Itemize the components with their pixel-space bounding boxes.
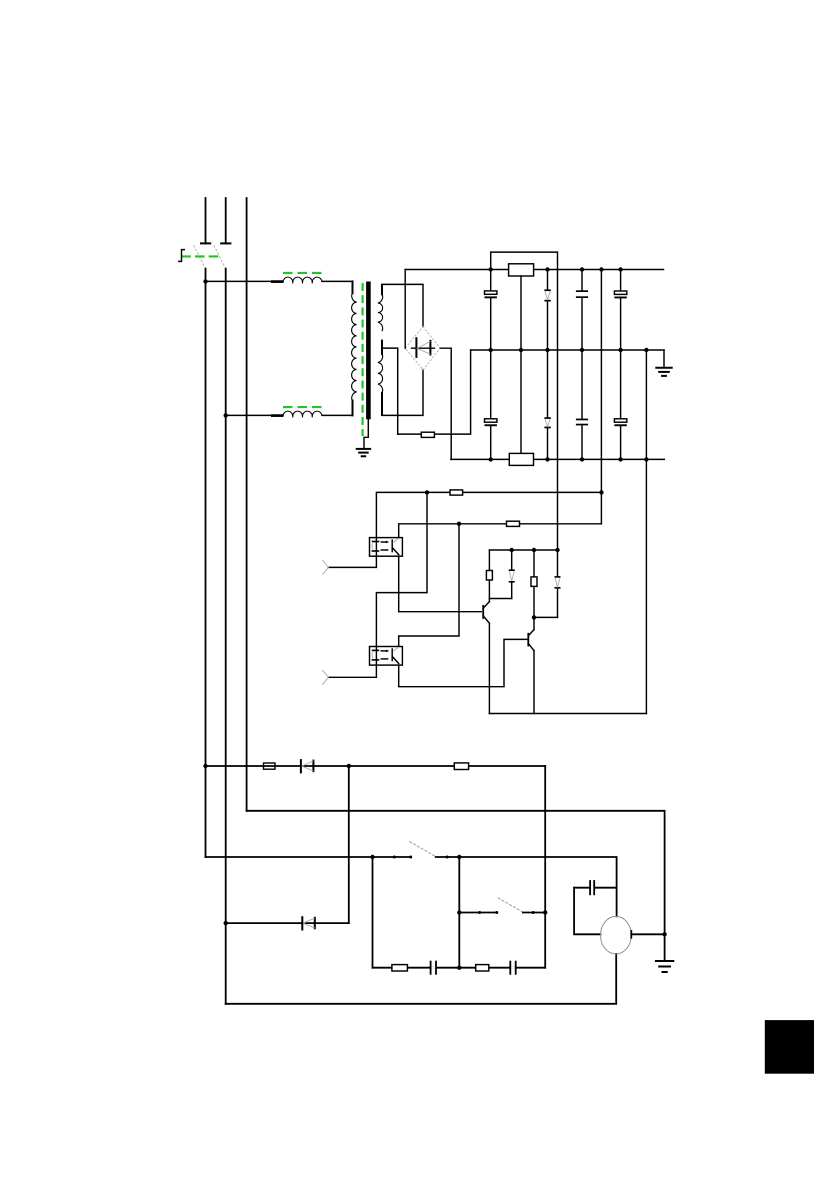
wire Q1 collector node (489, 598, 511, 600)
wire x427 vertical (376, 492, 427, 646)
motor terminal tick (630, 931, 632, 938)
pin P2 (line) (225, 198, 227, 243)
wire line C y857 left (206, 856, 411, 858)
black square marker (765, 1020, 814, 1074)
transformer T1 secondary winding 2 (378, 354, 383, 394)
switch S1 linkage (green dashed) (181, 255, 220, 257)
transformer T1 primary leads (352, 281, 354, 293)
wire Q2 collector node (534, 616, 558, 618)
transformer T1 green dashed shield (362, 283, 364, 436)
resistor R2 (421, 432, 434, 437)
wire motor right lead (631, 933, 664, 935)
wire opto2 emitter to Q2 base (399, 639, 527, 686)
optocoupler U2 (370, 647, 403, 666)
capacitor C3 (electrolytic) (614, 270, 626, 351)
capacitor C1 (electrolytic) (485, 270, 497, 351)
wire snubber row y968 (373, 967, 546, 969)
node y524 dot (457, 522, 461, 526)
capacitor C2 (576, 270, 588, 351)
wire R1 bypass loop (491, 252, 558, 269)
arrow input 2 (322, 670, 328, 685)
node SW3 line dot (457, 910, 461, 914)
switch SW2 arm (gray) (409, 841, 435, 856)
capacitor C5 (576, 350, 588, 459)
wire x348 branch vertical (348, 766, 350, 923)
wire Q1 emitter down (488, 623, 490, 713)
diode D2 (302, 917, 315, 929)
ground core symbol (357, 449, 371, 456)
wire bottom bus (451, 458, 665, 460)
wire line A y766 (206, 765, 546, 767)
wire x459 vertical (399, 524, 459, 647)
wire x459 vertical (458, 857, 460, 968)
wire opto2 led cathode to arrow (328, 665, 376, 677)
transistor Q2 (528, 630, 534, 651)
pin P1 terminal bar (201, 242, 210, 244)
wire line D y912 right (523, 912, 545, 914)
transformer T1 secondary leads (381, 285, 383, 295)
motor M1 (601, 916, 632, 954)
wire earth line B y810 (247, 811, 665, 961)
wire Q2 emitter down (533, 651, 535, 714)
node bottom bus dots (489, 457, 649, 461)
capacitor C7 (430, 961, 437, 975)
node line D right dots (532, 910, 548, 914)
ground motor symbol (656, 961, 673, 972)
pin P1 (line) (205, 198, 207, 243)
wire opto1 emitter to Q1 base (399, 556, 482, 612)
switch S1 pole b (arm) (214, 245, 226, 269)
wire opto1 led cathode to arrow (328, 556, 376, 567)
wire earth vertical (246, 198, 248, 811)
wire mid bus (471, 349, 664, 351)
resistor R11 (476, 965, 489, 971)
choke Lb green dash (283, 406, 322, 408)
transformer T1 core bar (366, 282, 371, 420)
ground right symbol (656, 368, 671, 376)
wire line C y857 right (436, 857, 617, 916)
node line A branch dot (347, 764, 351, 768)
node line C right dots (446, 855, 462, 859)
choke La green dash (283, 272, 322, 274)
node snubber junction dot (457, 966, 461, 970)
switch S1 bracket (179, 250, 185, 262)
resistor R4 (450, 490, 463, 495)
inductor choke La (283, 277, 322, 282)
wire Q2 collector up (533, 617, 535, 629)
node y550 dots (510, 548, 560, 552)
diode D3 (gray) (544, 270, 550, 351)
wire emitter rail y713 (489, 713, 646, 715)
arrow input 1 (322, 560, 328, 575)
diode D6 (gray) (555, 550, 561, 617)
wire R1 lead down (520, 276, 522, 454)
node L-choke junction (203, 279, 207, 283)
resistor R1 (509, 264, 534, 276)
wire collector rail y550 (489, 549, 557, 551)
resistor R10 (392, 965, 408, 971)
switch SW3 arm (gray) (498, 898, 523, 912)
resistor R9 (454, 763, 468, 770)
wire x601 vertical (600, 270, 602, 524)
switch S1 pole a (arm) (194, 245, 206, 269)
capacitor C4 (electrolytic) (485, 350, 497, 459)
wire x372 vertical (372, 857, 374, 968)
capacitor C6 (electrolytic) (614, 350, 626, 459)
resistor R7 (531, 550, 537, 617)
wire L to choke (206, 280, 284, 282)
wire top bus (405, 269, 663, 271)
wire line D y912 left (459, 912, 497, 914)
diode D5 (gray) (509, 550, 515, 599)
node y492 dots (425, 490, 429, 494)
wire choke La to primary (322, 281, 353, 292)
resistor R5 (507, 521, 520, 526)
wire choke Lb to primary bottom (322, 403, 353, 415)
diode D4 (gray) (544, 350, 550, 459)
node line A start dot (203, 764, 207, 768)
wire bridge left to top bus (404, 270, 406, 349)
pin P2 terminal bar (221, 242, 230, 244)
wire N vertical (225, 269, 227, 1004)
node line D dots (478, 911, 498, 914)
resistor R8 (264, 763, 276, 769)
wire line A down x545 (544, 766, 546, 968)
wire line F y1004 (226, 954, 617, 1004)
wire bridge right to bottom bus (440, 348, 451, 459)
wire line G y923 (226, 922, 349, 924)
wire mid bus to ground (663, 350, 665, 367)
wire secondary center tap (382, 348, 398, 434)
wire loop-right long vertical (557, 270, 559, 551)
capacitor C9 (motor) (574, 880, 617, 895)
node line C dots (370, 855, 412, 859)
node Q2 collector dot (532, 615, 536, 619)
wire mid bus hook to R line (398, 350, 471, 434)
wire secondary2 bottom to bridge bottom (382, 370, 423, 416)
resistor R6 (486, 550, 492, 599)
wire line y524 (399, 524, 602, 538)
wire x646 vertical (mid bus to emitter rail) (645, 350, 647, 714)
wire Q1 collector up (488, 599, 490, 602)
resistor R3 (509, 453, 533, 465)
optocoupler U1 (370, 538, 403, 557)
inductor choke Lb (283, 411, 322, 416)
transistor Q1 (483, 602, 489, 624)
transformer T1 secondary winding 1 (378, 294, 383, 331)
node top bus dots (489, 267, 623, 271)
node mid bus dots (489, 348, 649, 352)
transformer T1 primary winding (352, 293, 357, 401)
node motor-earth dot (662, 932, 666, 936)
wire secondary1 top to bridge top (382, 284, 423, 326)
diode D1 (301, 760, 314, 772)
wire C9 left lead to motor (574, 888, 600, 935)
capacitor C8 (509, 961, 516, 975)
wire core to ground (364, 419, 368, 448)
node N diode branch dot (224, 921, 228, 925)
wire feedback line y492 (376, 492, 601, 537)
wire N to choke (226, 414, 283, 416)
wire L vertical (205, 269, 207, 857)
node N-choke junction (224, 413, 228, 417)
bridge rectifier BR1 (405, 327, 440, 370)
